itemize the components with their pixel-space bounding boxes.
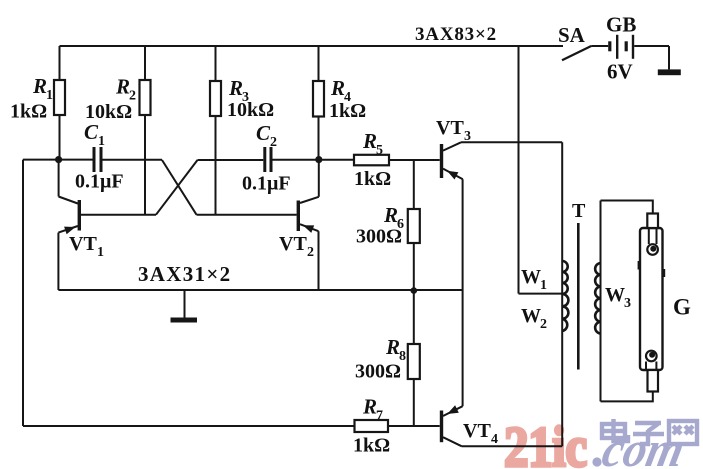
svg-text:2: 2 <box>540 317 547 332</box>
ground left <box>171 318 198 323</box>
svg-text:10kΩ: 10kΩ <box>227 99 274 121</box>
wire VT1 base horizontal <box>81 214 156 216</box>
svg-text:5: 5 <box>376 143 383 158</box>
transistor VT2 <box>279 197 319 260</box>
svg-text:3: 3 <box>624 296 631 311</box>
svg-text:C: C <box>84 120 99 144</box>
svg-text:R: R <box>385 335 400 359</box>
svg-text:1: 1 <box>97 245 104 260</box>
transistor VT4 <box>440 405 498 447</box>
resistor R7 <box>353 395 390 457</box>
node A junction dot <box>55 156 62 163</box>
svg-text:2: 2 <box>270 135 277 150</box>
wire R1 top column <box>59 46 61 80</box>
wire R6 bottom column <box>413 243 415 291</box>
wire R8 top column <box>413 291 415 344</box>
svg-text:R: R <box>330 76 345 100</box>
wire cross diagonal A <box>162 160 197 215</box>
watermark 子 glyph <box>633 423 664 444</box>
resistor R1 <box>10 74 65 123</box>
node C junction dot R6 R8 <box>411 287 418 294</box>
wire VT3/VT4 emitter vertical <box>462 179 464 406</box>
svg-text:1kΩ: 1kΩ <box>353 435 390 457</box>
wire C1 right plate to cross <box>103 159 163 161</box>
svg-text:7: 7 <box>376 409 383 424</box>
resistor R3 <box>210 76 274 121</box>
svg-text:0.1μF: 0.1μF <box>242 173 291 195</box>
wire transformer tap horizontal <box>519 293 563 295</box>
battery GB <box>606 13 636 84</box>
wire W3 secondary vertical <box>600 201 602 402</box>
svg-text:300Ω: 300Ω <box>356 226 402 248</box>
svg-text:R: R <box>115 75 130 99</box>
svg-text:VT: VT <box>463 420 491 442</box>
wire R2 bottom column to VT1 base <box>144 115 146 215</box>
wire VT1 emitter vertical <box>57 233 59 290</box>
svg-text:R: R <box>383 203 398 227</box>
wire transformer primary vertical <box>561 142 563 446</box>
svg-text:C: C <box>256 121 271 145</box>
svg-text:SA: SA <box>558 23 586 47</box>
svg-text:0.1μF: 0.1μF <box>75 171 124 193</box>
svg-text:W: W <box>521 266 541 288</box>
wire VT4 collector horizontal <box>462 445 563 447</box>
wire switch to battery <box>591 45 608 47</box>
svg-text:1kΩ: 1kΩ <box>354 168 391 190</box>
wire VT2 base horizontal <box>197 214 297 216</box>
resistor R5 <box>354 129 391 190</box>
svg-text:3AX31×2: 3AX31×2 <box>138 262 231 286</box>
wire R5 to VT3 base <box>389 159 440 161</box>
wire supply drop to transformer tap <box>518 46 520 294</box>
svg-text:W: W <box>521 305 541 327</box>
svg-text:T: T <box>572 200 586 222</box>
svg-text:2: 2 <box>307 245 314 260</box>
capacitor C1 <box>75 120 124 193</box>
svg-text:GB: GB <box>606 13 636 37</box>
wire ground stem left <box>184 290 186 318</box>
wire lamp bottom to W3 <box>601 392 653 402</box>
wire R2 top column <box>144 46 146 80</box>
transformer core T <box>572 200 586 370</box>
svg-text:G: G <box>673 295 691 320</box>
wire left feedback branch horizontal <box>23 159 93 161</box>
transformer winding W2 <box>521 294 568 332</box>
wire R3 bottom column to VT2 base <box>215 116 217 215</box>
lamp G bottom filament <box>646 351 657 370</box>
node B junction dot <box>315 156 322 163</box>
wire common emitter rail <box>58 289 462 291</box>
svg-text:21ic: 21ic <box>504 417 587 469</box>
svg-text:1kΩ: 1kΩ <box>329 100 366 122</box>
transistor VT1 <box>58 197 104 261</box>
wire left feedback vertical <box>22 160 24 426</box>
svg-text:VT: VT <box>279 233 307 255</box>
resistor R4 <box>313 76 366 122</box>
svg-text:1: 1 <box>98 134 105 149</box>
lamp G top filament <box>647 228 658 255</box>
watermark 21ic <box>504 417 690 469</box>
wire R4 top column <box>318 46 320 81</box>
wire R6 top column <box>413 160 415 209</box>
wire W3 top to lamp <box>601 201 653 214</box>
capacitor C2 <box>242 121 291 195</box>
wire battery to ground <box>634 45 669 47</box>
transformer winding W1 <box>521 261 568 294</box>
resistor R2 <box>85 75 151 124</box>
transistor VT3 <box>436 117 471 180</box>
svg-text:R: R <box>228 76 243 100</box>
svg-text:300Ω: 300Ω <box>355 361 401 383</box>
transformer winding W3 <box>595 263 631 334</box>
wire VT2 emitter vertical <box>318 231 320 290</box>
svg-text:1kΩ: 1kΩ <box>10 101 47 123</box>
wire VT2 collector vertical <box>318 160 320 197</box>
ground right <box>658 69 681 75</box>
svg-text:1: 1 <box>540 278 547 293</box>
svg-text:R: R <box>32 74 47 98</box>
wire R1 bottom to node A <box>59 115 61 160</box>
watermark 网 glyph <box>669 421 697 444</box>
wire cross to C2 left plate <box>198 159 264 161</box>
wire R7 to VT4 base <box>388 425 440 427</box>
svg-text:R: R <box>362 395 377 419</box>
wire ground stem right <box>668 46 670 69</box>
svg-text:VT: VT <box>436 117 464 139</box>
svg-text:3AX83×2: 3AX83×2 <box>415 24 497 45</box>
lamp G side pins <box>638 261 641 270</box>
svg-text:R: R <box>362 129 377 153</box>
wire VT3 collector horizontal <box>461 141 562 143</box>
wire C2 right plate to node B and R5 <box>272 159 354 161</box>
resistor R8 <box>355 335 420 383</box>
wire R3 top column <box>215 46 217 81</box>
svg-text:3: 3 <box>464 129 471 144</box>
wire node A to VT1 collector <box>58 160 60 197</box>
wire R8 bottom column to VT4 base <box>413 379 415 426</box>
svg-text:W: W <box>605 284 625 306</box>
watermark 电 glyph <box>602 419 628 441</box>
svg-text:VT: VT <box>69 233 97 255</box>
svg-text:4: 4 <box>491 432 498 447</box>
switch SA blade <box>562 46 591 60</box>
resistor R6 <box>356 203 420 248</box>
wire top supply rail <box>60 45 564 47</box>
wire cross diagonal B <box>156 160 198 215</box>
wire bottom feedback to R7 <box>23 425 355 427</box>
wire R4 bottom to node B <box>318 117 320 160</box>
lamp G tube <box>640 214 663 392</box>
svg-text:6V: 6V <box>607 60 633 84</box>
